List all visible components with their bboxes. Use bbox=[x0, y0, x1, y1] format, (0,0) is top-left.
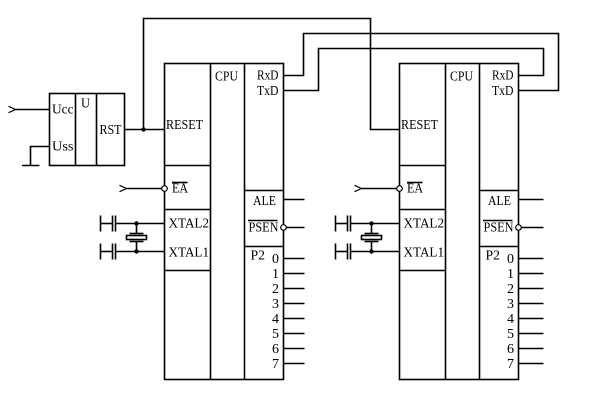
wire C3 left bbox=[336, 223, 348, 225]
svg-text:7: 7 bbox=[507, 357, 514, 372]
wire C4 left bbox=[336, 251, 348, 253]
wire P2.1 U1 bbox=[284, 273, 305, 275]
wire RST to RESET U1 bbox=[125, 129, 165, 131]
wire XTAL1 U2 bbox=[351, 251, 400, 253]
svg-text:RxD: RxD bbox=[257, 69, 279, 84]
svg-text:ALE: ALE bbox=[253, 194, 276, 209]
wire P2.6 U2 bbox=[519, 348, 544, 350]
CPU U1 block bbox=[165, 64, 284, 380]
svg-text:PSEN: PSEN bbox=[249, 221, 279, 236]
svg-text:XTAL1: XTAL1 bbox=[169, 246, 210, 261]
svg-text:2: 2 bbox=[272, 282, 279, 297]
svg-text:ALE: ALE bbox=[488, 194, 511, 209]
svg-text:7: 7 bbox=[272, 357, 279, 372]
wire P2.0 U2 bbox=[519, 258, 544, 260]
svg-text:0: 0 bbox=[507, 252, 514, 267]
junction dot XTAL1 U1 bbox=[134, 249, 138, 253]
junction dot reset node bbox=[141, 127, 145, 131]
svg-text:0: 0 bbox=[272, 252, 279, 267]
svg-text:XTAL2: XTAL2 bbox=[169, 217, 210, 232]
capacitor C1 bbox=[113, 216, 116, 232]
svg-text:2: 2 bbox=[507, 282, 514, 297]
capacitor C4 bbox=[348, 244, 351, 260]
svg-text:P2: P2 bbox=[486, 249, 501, 264]
svg-text:RST: RST bbox=[100, 123, 122, 138]
svg-text:3: 3 bbox=[507, 297, 514, 312]
wire P2.7 U2 bbox=[519, 363, 544, 365]
wire EA input U2 bbox=[362, 188, 397, 190]
svg-text:TxD: TxD bbox=[257, 84, 279, 99]
wire XTAL2 U2 bbox=[351, 223, 400, 225]
wire P2.4 U1 bbox=[284, 318, 305, 320]
EA input arrow U2 bbox=[355, 185, 362, 191]
wire reset to RESET U2 bbox=[144, 19, 400, 130]
junction dot XTAL2 U1 bbox=[134, 221, 138, 225]
svg-text:6: 6 bbox=[272, 342, 279, 357]
wire Uss to ground bbox=[31, 147, 50, 166]
svg-text:4: 4 bbox=[272, 312, 279, 327]
wire P2.7 U1 bbox=[284, 363, 305, 365]
capacitor C3 terminal bar bbox=[335, 216, 337, 232]
pin label EA U2 bbox=[407, 182, 424, 197]
capacitor C2 terminal bar bbox=[100, 244, 102, 260]
pin circle PSEN U2 bbox=[516, 225, 522, 231]
wire C2 left bbox=[101, 251, 113, 253]
svg-text:Uss: Uss bbox=[52, 140, 74, 155]
wire P2.5 U2 bbox=[519, 333, 544, 335]
power input arrow bbox=[9, 106, 16, 112]
svg-text:EA: EA bbox=[407, 182, 424, 197]
wire P2.0 U1 bbox=[284, 258, 305, 260]
wire C1 left bbox=[101, 223, 113, 225]
capacitor C1 terminal bar bbox=[100, 216, 102, 232]
svg-text:5: 5 bbox=[272, 327, 279, 342]
svg-text:RESET: RESET bbox=[166, 118, 203, 133]
pin label EA U1 bbox=[172, 182, 189, 197]
capacitor C3 bbox=[348, 216, 351, 232]
svg-text:RxD: RxD bbox=[492, 69, 514, 84]
wire P2.1 U2 bbox=[519, 273, 544, 275]
wire P2.2 U2 bbox=[519, 288, 544, 290]
wire ALE U1 bbox=[284, 199, 305, 201]
wire P2.2 U1 bbox=[284, 288, 305, 290]
svg-text:P2: P2 bbox=[251, 249, 266, 264]
svg-text:3: 3 bbox=[272, 297, 279, 312]
ground bbox=[22, 165, 40, 167]
reset IC U bbox=[50, 94, 125, 166]
wire TxD1 to RxD2 bbox=[284, 49, 544, 91]
crystal Y2 bbox=[362, 224, 382, 252]
svg-text:XTAL2: XTAL2 bbox=[404, 217, 445, 232]
svg-text:1: 1 bbox=[507, 267, 514, 282]
wire PSEN U2 bbox=[522, 227, 544, 229]
svg-text:5: 5 bbox=[507, 327, 514, 342]
wire P2.3 U2 bbox=[519, 303, 544, 305]
wire P2.4 U2 bbox=[519, 318, 544, 320]
svg-text:EA: EA bbox=[172, 182, 189, 197]
junction dot XTAL2 U2 bbox=[369, 221, 373, 225]
wire XTAL2 U1 bbox=[116, 223, 165, 225]
EA input arrow U1 bbox=[120, 185, 127, 191]
svg-text:CPU: CPU bbox=[450, 70, 473, 85]
svg-text:4: 4 bbox=[507, 312, 514, 327]
pin circle EA U1 bbox=[162, 186, 168, 192]
svg-text:PSEN: PSEN bbox=[484, 221, 514, 236]
wire P2.6 U1 bbox=[284, 348, 305, 350]
svg-text:Ucc: Ucc bbox=[52, 103, 74, 118]
pin label PSEN U2 bbox=[483, 221, 514, 236]
svg-text:TxD: TxD bbox=[492, 84, 514, 99]
junction dot XTAL1 U2 bbox=[369, 249, 373, 253]
pin circle EA U2 bbox=[397, 186, 403, 192]
pin label PSEN U1 bbox=[248, 221, 279, 236]
wire P2.3 U1 bbox=[284, 303, 305, 305]
capacitor C4 terminal bar bbox=[335, 244, 337, 260]
svg-text:1: 1 bbox=[272, 267, 279, 282]
svg-text:CPU: CPU bbox=[215, 70, 238, 85]
wire ALE U2 bbox=[519, 199, 544, 201]
pin circle PSEN U1 bbox=[281, 225, 287, 231]
wire RxD1 to TxD2 bbox=[284, 34, 559, 91]
CPU U2 block bbox=[400, 64, 519, 380]
wire PSEN U1 bbox=[287, 227, 305, 229]
svg-text:RESET: RESET bbox=[401, 118, 438, 133]
wire Ucc input bbox=[14, 109, 50, 111]
svg-text:U: U bbox=[81, 97, 90, 112]
svg-text:XTAL1: XTAL1 bbox=[404, 246, 445, 261]
wire P2.5 U1 bbox=[284, 333, 305, 335]
capacitor C2 bbox=[113, 244, 116, 260]
crystal Y1 bbox=[127, 224, 147, 252]
svg-text:6: 6 bbox=[507, 342, 514, 357]
wire XTAL1 U1 bbox=[116, 251, 165, 253]
wire EA input U1 bbox=[127, 188, 162, 190]
